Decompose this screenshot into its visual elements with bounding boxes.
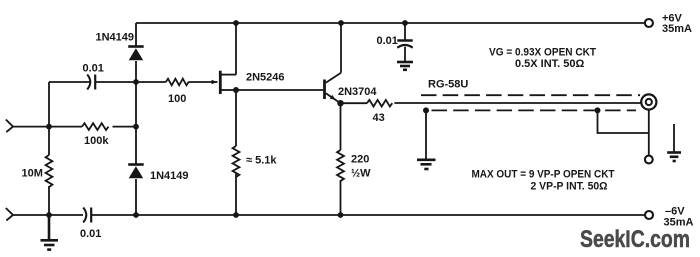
ground left input	[41, 215, 59, 250]
svg-text:2 VP-P INT. 50Ω: 2 VP-P INT. 50Ω	[531, 181, 608, 193]
wire source to base	[236, 89, 323, 91]
resistor 100k	[82, 123, 109, 130]
node shield right	[595, 107, 601, 113]
wire emitter to 43 resistor	[341, 102, 368, 104]
svg-text:½W: ½W	[351, 168, 371, 180]
wire left column x=49	[48, 82, 50, 215]
node 5.1k bottom rail	[233, 212, 239, 218]
resistor 10M	[46, 155, 53, 187]
svg-text:0.5X INT. 50Ω: 0.5X INT. 50Ω	[515, 58, 585, 70]
wire JFET drain up to rail	[235, 23, 237, 75]
svg-text:100k: 100k	[84, 135, 109, 147]
ground top right cap	[397, 62, 413, 70]
node gate junction on diode column	[133, 79, 139, 85]
input terminal lower	[6, 208, 13, 221]
svg-text:1N4149: 1N4149	[150, 170, 189, 182]
ground shield left	[417, 160, 436, 169]
svg-text:0.01: 0.01	[83, 63, 104, 75]
ground chassis right	[667, 124, 681, 161]
capacitor 0.01 lower left	[83, 208, 91, 223]
node diode column to bottom rail	[133, 212, 139, 218]
wire 100k line	[49, 126, 136, 128]
wire cap to left corner column	[49, 81, 90, 83]
svg-text:43: 43	[373, 112, 385, 124]
terminal +6V	[645, 19, 653, 27]
wire coax shield dashed upper	[421, 94, 640, 96]
node source junction	[233, 87, 239, 93]
diode 1N4149 upper	[128, 47, 144, 61]
wire bottom rail	[91, 214, 644, 216]
node left column bottom rail	[46, 212, 52, 218]
svg-text:10M: 10M	[22, 168, 43, 180]
node emitter junction	[337, 100, 343, 106]
svg-text:1N4149: 1N4149	[96, 32, 135, 44]
svg-text:MAX OUT = 9 VP-P OPEN CKT: MAX OUT = 9 VP-P OPEN CKT	[472, 169, 615, 181]
svg-text:220: 220	[351, 154, 369, 166]
resistor 220	[337, 150, 344, 181]
resistor 5.1k	[233, 146, 240, 177]
wire top +6V rail	[136, 22, 645, 24]
svg-text:≈ 5.1k: ≈ 5.1k	[246, 155, 277, 167]
wire connector shell down	[648, 110, 650, 156]
wire collector up to rail	[340, 23, 342, 73]
svg-text:2N3704: 2N3704	[338, 86, 377, 98]
wire input 1	[13, 126, 49, 128]
wire source column	[235, 90, 237, 215]
node cap on top rail	[402, 20, 408, 26]
wire left diode column (x=137)	[135, 23, 137, 215]
svg-text:2N5246: 2N5246	[246, 72, 285, 84]
svg-text:RG-58U: RG-58U	[428, 79, 468, 91]
wire emitter column	[340, 103, 342, 215]
node 100k junction on diode column	[133, 124, 139, 130]
wire bottom rail left of cap	[13, 214, 83, 216]
terminal shield	[645, 156, 653, 164]
wire center conductor to connector	[394, 102, 641, 104]
resistor 43	[367, 100, 392, 107]
transistor 2N3704	[325, 73, 342, 104]
node shield left	[423, 107, 429, 113]
node 220 bottom rail	[338, 212, 344, 218]
wire shield right to connector	[598, 110, 649, 133]
svg-text:35mA: 35mA	[662, 23, 692, 35]
svg-text:0.01: 0.01	[80, 228, 101, 240]
node collector on top rail	[338, 20, 344, 26]
connector coax output	[641, 94, 656, 109]
svg-text:0.01: 0.01	[377, 35, 398, 47]
transistor 2N5246 JFET	[212, 71, 236, 94]
svg-text:SeekIC.com: SeekIC.com	[580, 226, 690, 253]
capacitor 0.01 upper left	[87, 75, 95, 90]
resistor 100	[166, 79, 189, 86]
terminal -6V	[645, 211, 653, 219]
svg-text:VG = 0.93X OPEN CKT: VG = 0.93X OPEN CKT	[489, 47, 596, 59]
node input junction	[46, 124, 52, 130]
wire coax shield dashed lower	[432, 109, 637, 111]
svg-text:100: 100	[168, 93, 186, 105]
capacitor 0.01 top right	[397, 23, 412, 61]
input terminal upper	[6, 120, 13, 133]
diode 1N4149 lower	[128, 165, 144, 179]
wire gate line from cap to 100 resistor	[95, 81, 217, 83]
node drain on top rail	[233, 20, 239, 26]
wire shield left down	[425, 110, 427, 158]
